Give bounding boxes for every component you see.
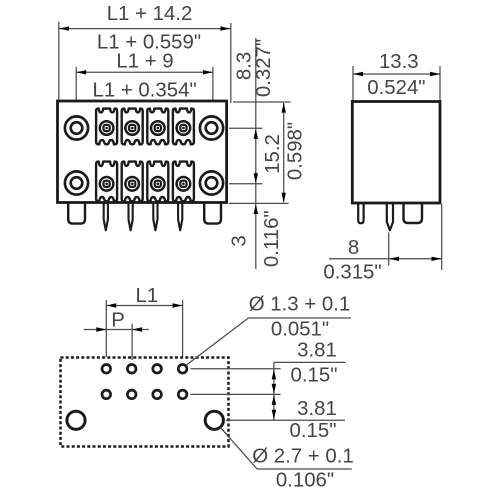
- svg-text:13.3: 13.3: [379, 51, 419, 73]
- svg-text:0.327": 0.327": [253, 39, 275, 97]
- svg-text:Ø 1.3 + 0.1: Ø 1.3 + 0.1: [249, 294, 350, 316]
- svg-text:0.598": 0.598": [284, 122, 306, 180]
- svg-text:15.2: 15.2: [262, 134, 284, 174]
- svg-text:0.116": 0.116": [261, 210, 283, 267]
- svg-text:Ø 2.7 + 0.1: Ø 2.7 + 0.1: [252, 446, 353, 468]
- svg-text:8: 8: [348, 237, 359, 259]
- svg-text:L1: L1: [136, 285, 159, 307]
- svg-text:0.315": 0.315": [323, 261, 381, 283]
- svg-text:L1 + 0.354": L1 + 0.354": [93, 80, 197, 102]
- svg-text:0.051": 0.051": [271, 319, 329, 341]
- svg-text:3.81: 3.81: [297, 398, 337, 420]
- svg-text:0.15": 0.15": [290, 420, 337, 442]
- svg-text:3.81: 3.81: [297, 340, 337, 362]
- svg-text:0.15": 0.15": [291, 365, 338, 387]
- svg-text:0.106": 0.106": [276, 470, 334, 492]
- svg-text:L1 + 14.2: L1 + 14.2: [107, 3, 193, 25]
- svg-text:P: P: [111, 310, 125, 332]
- svg-text:L1 + 9: L1 + 9: [116, 51, 173, 73]
- svg-text:3: 3: [228, 235, 250, 246]
- svg-text:8.3: 8.3: [233, 52, 255, 80]
- svg-text:0.524": 0.524": [367, 77, 425, 99]
